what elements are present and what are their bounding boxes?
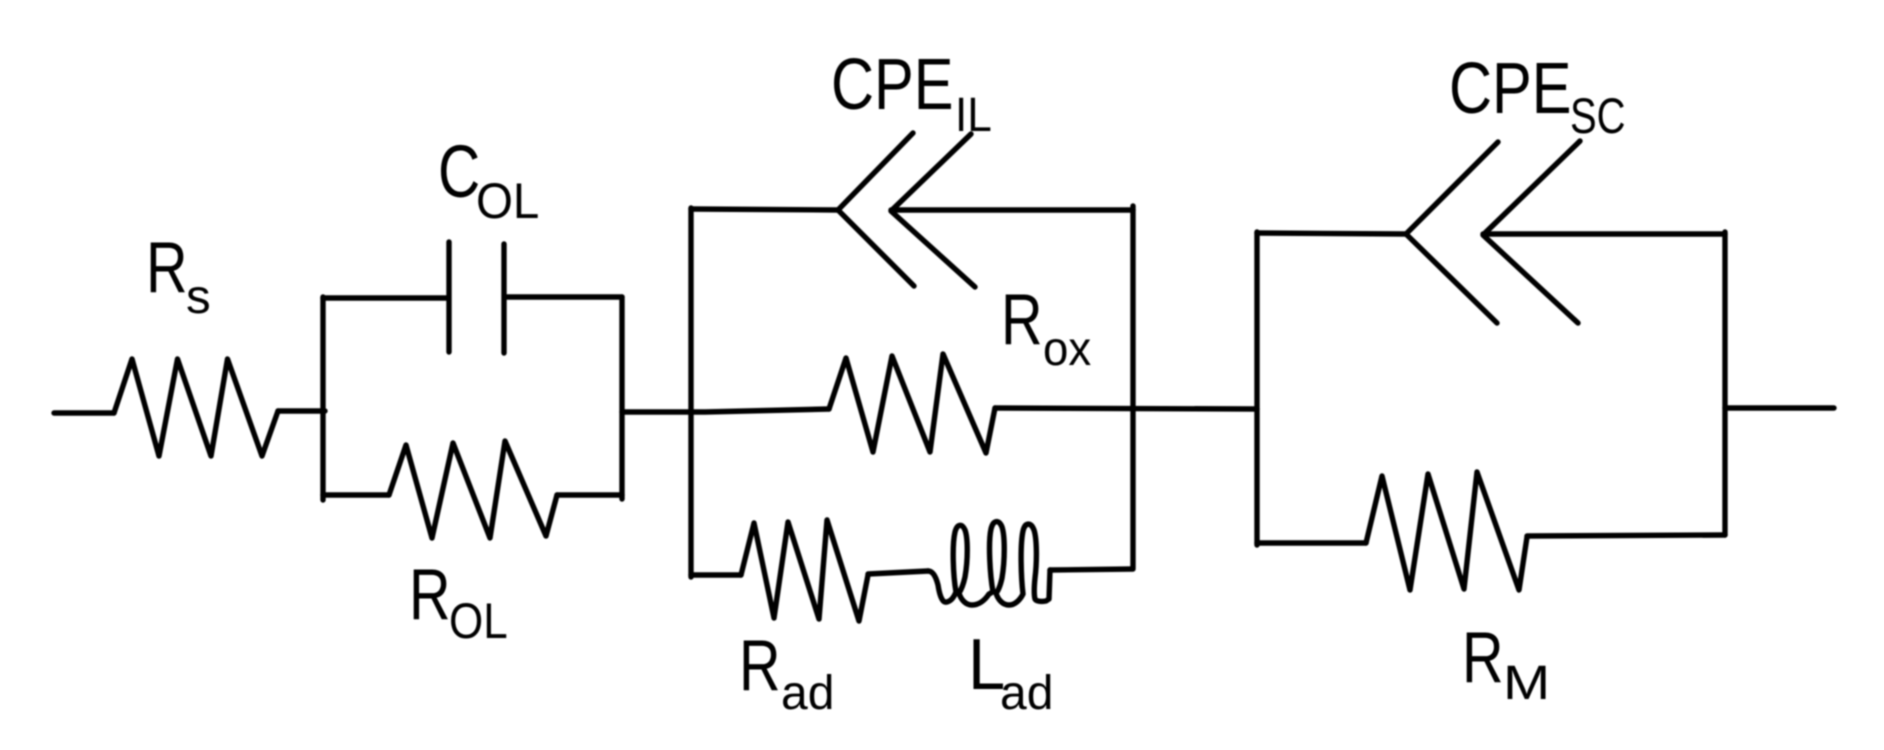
- svg-text:R: R: [409, 554, 451, 635]
- svg-text:ox: ox: [1043, 322, 1091, 375]
- wire box3 top-left: [1257, 233, 1406, 234]
- svg-text:R: R: [739, 625, 781, 706]
- svg-text:CPE: CPE: [1449, 49, 1572, 130]
- capacitor C_OL right plate: [501, 244, 506, 353]
- svg-text:OL: OL: [449, 592, 508, 648]
- wire box3 bottom-right: [1527, 535, 1725, 536]
- CPE_SC chevron 2: [1483, 141, 1580, 323]
- wire box1 top-left: [323, 295, 446, 300]
- wire box3 top-right: [1483, 231, 1725, 236]
- resistor R_OL: [389, 441, 557, 538]
- resistor R_ox: [829, 354, 995, 453]
- wire box2 top-right: [891, 207, 1133, 212]
- wire box2 bottom-left: [691, 572, 741, 577]
- svg-text:R: R: [1001, 279, 1043, 360]
- label CPE_IL: [831, 45, 992, 142]
- label R_ox: [1001, 279, 1091, 375]
- wire R_ox to box3: [995, 408, 1257, 409]
- svg-text:SC: SC: [1570, 88, 1626, 144]
- wire box3 right vertical: [1722, 232, 1727, 535]
- svg-text:CPE: CPE: [831, 45, 954, 126]
- wire box2 right vertical: [1130, 206, 1135, 568]
- label R_OL: [409, 554, 508, 649]
- resistor R_ad: [741, 520, 868, 621]
- svg-text:R: R: [146, 227, 188, 308]
- wire box1 bottom-right: [557, 492, 622, 497]
- CPE_IL chevron 2: [891, 134, 975, 287]
- svg-text:C: C: [438, 132, 480, 214]
- wire exit lead: [1725, 405, 1834, 410]
- wire box3 left vertical: [1254, 232, 1259, 545]
- wire box3 bottom-left: [1257, 540, 1366, 545]
- wire box1 exit: [622, 409, 829, 412]
- label L_ad: [968, 624, 1053, 720]
- wire box1 right vertical: [619, 297, 624, 499]
- wire R_s to box1: [278, 408, 325, 413]
- svg-text:ad: ad: [781, 667, 834, 720]
- label R_s: [146, 227, 211, 324]
- svg-text:ad: ad: [1000, 667, 1053, 720]
- wire R_ad to L_ad: [868, 571, 928, 574]
- capacitor C_OL left plate: [446, 242, 451, 352]
- label R_M: [1462, 617, 1550, 710]
- wire left lead: [54, 410, 114, 415]
- wire box2 top-left: [691, 209, 838, 210]
- resistor R_M: [1366, 472, 1527, 590]
- label CPE_SC: [1449, 49, 1626, 144]
- svg-text:M: M: [1503, 656, 1550, 710]
- wire box2 bottom-right: [1050, 569, 1133, 570]
- CPE_IL chevron 1: [838, 133, 914, 286]
- resistor R_s: [114, 359, 278, 456]
- svg-text:R: R: [1462, 617, 1504, 698]
- svg-text:OL: OL: [476, 174, 539, 229]
- svg-text:IL: IL: [955, 87, 992, 141]
- wire box1 top-right: [507, 294, 622, 299]
- wire box1 left vertical: [320, 297, 325, 500]
- svg-text:s: s: [186, 271, 211, 324]
- wire box1 bottom-left: [323, 492, 389, 497]
- wire box2 left vertical: [688, 208, 693, 577]
- label R_ad: [739, 625, 834, 720]
- label C_OL: [438, 132, 539, 230]
- CPE_SC chevron 1: [1406, 142, 1498, 323]
- inductor L_ad: [928, 522, 1050, 605]
